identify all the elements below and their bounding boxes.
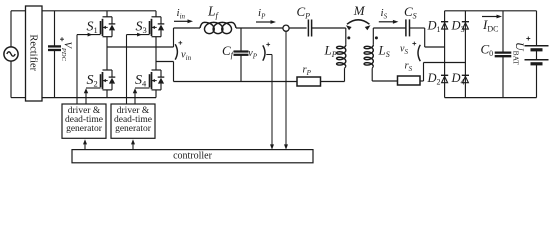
svg-text:generator: generator <box>115 124 152 134</box>
svg-text:M: M <box>353 3 366 18</box>
svg-text:generator: generator <box>66 124 103 134</box>
svg-text:Rectifier: Rectifier <box>28 34 39 71</box>
svg-text:controller: controller <box>173 151 213 162</box>
